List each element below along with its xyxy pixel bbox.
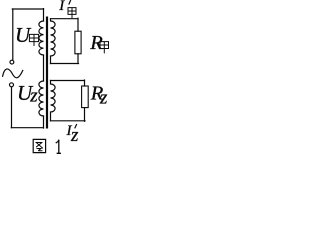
primary winding 2 (Uz) — [39, 81, 44, 116]
secondary winding 1 — [51, 19, 56, 64]
wire: stub between primary windings — [43, 55, 45, 81]
caption 1 — [56, 140, 60, 153]
wire: secondary 2 top — [51, 80, 85, 82]
primary winding 1 (U甲) — [39, 21, 44, 55]
wire: primary top stub to winding — [43, 9, 45, 21]
label R甲: 甲 — [100, 42, 109, 53]
wire: left rail bottom — [11, 87, 13, 128]
secondary winding 2 — [51, 81, 56, 121]
wire: primary bottom — [11, 127, 43, 129]
svg-text:z: z — [29, 85, 38, 106]
caption 图 — [33, 139, 45, 152]
wire: secondary 2 right stub bottom — [84, 108, 86, 122]
AC source terminal (top circle) — [10, 60, 14, 64]
svg-text:z: z — [70, 125, 79, 146]
wire: secondary 2 bottom — [51, 120, 86, 122]
AC source terminal (bottom circle) — [10, 83, 14, 87]
svg-text:I: I — [58, 0, 65, 14]
label I'z: prime — [75, 125, 77, 128]
wire: secondary 1 right stub top — [77, 18, 79, 31]
wire: primary bottom stub to winding — [43, 116, 45, 128]
AC source tilde — [3, 69, 23, 78]
resistor R甲 body — [75, 31, 81, 54]
wire: primary top — [12, 8, 43, 10]
label I'甲: prime — [69, 1, 71, 4]
wire: secondary 1 right stub bottom — [77, 54, 79, 64]
wire: secondary 1 top — [51, 18, 79, 20]
svg-text:z: z — [99, 87, 108, 108]
label I'甲: 甲 — [68, 8, 76, 18]
wire: secondary 2 right stub top — [84, 80, 86, 86]
svg-text:R: R — [89, 32, 103, 54]
resistor Rz body — [82, 86, 89, 108]
wire: secondary 1 bottom — [51, 63, 79, 65]
wire: left rail top — [12, 9, 14, 60]
label U甲: 甲 — [29, 34, 38, 45]
transformer core — [46, 17, 48, 129]
